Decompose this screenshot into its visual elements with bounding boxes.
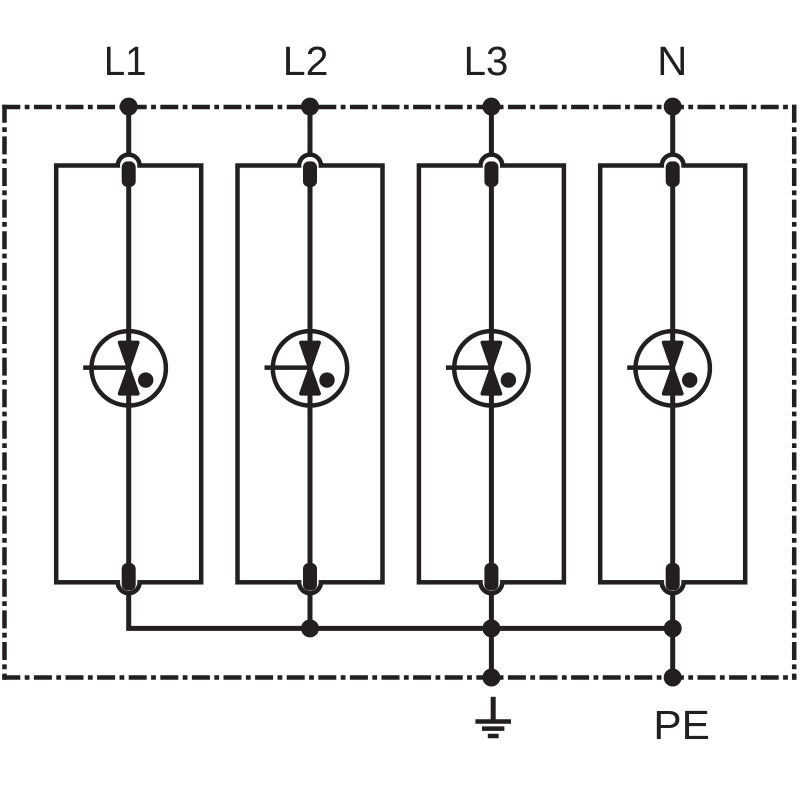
internal wire N bbox=[670, 166, 675, 566]
spark-gap electrode line L3 bbox=[446, 365, 493, 370]
box edge gap at top plug L3 bbox=[483, 163, 500, 168]
internal wire L3 bbox=[489, 166, 494, 566]
SPD module box L2 bbox=[238, 166, 383, 583]
SPD module box N bbox=[600, 166, 745, 583]
spark-gap indicator dot L1 bbox=[138, 372, 153, 387]
spark-gap circle L3 bbox=[454, 331, 528, 405]
svg-text:L2: L2 bbox=[283, 38, 329, 84]
terminal node L1 (dot) bbox=[120, 98, 138, 116]
box edge gap at top plug L1 bbox=[120, 163, 137, 168]
junction node L2/bus bbox=[301, 619, 319, 637]
terminal wire L2 bbox=[308, 104, 313, 154]
svg-text:L1: L1 bbox=[104, 39, 147, 84]
spark-gap indicator dot L2 bbox=[319, 372, 334, 387]
enclosure border right (dash-dot) bbox=[792, 105, 797, 680]
terminal node L2 (dot) bbox=[301, 98, 319, 116]
box edge gap at bottom plug L1 bbox=[120, 580, 137, 585]
spark-gap electrode line L1 bbox=[83, 365, 130, 370]
plug-in arch top L3 bbox=[481, 155, 503, 166]
junction node N/bus bbox=[664, 619, 682, 637]
spark-gap indicator dot L3 bbox=[501, 372, 516, 387]
spark-gap indicator dot N bbox=[682, 372, 697, 387]
box edge gap at top plug N bbox=[664, 163, 681, 168]
ground symbol stem bbox=[491, 697, 496, 722]
wire L1 to PE bus (elbow) bbox=[129, 594, 673, 628]
spark-gap lower triangle L2 bbox=[301, 368, 319, 393]
svg-text:N: N bbox=[657, 38, 687, 83]
plug contact pill top L3 bbox=[484, 161, 498, 187]
spark-gap upper triangle L1 bbox=[120, 343, 138, 369]
enclosure border top (dash-dot) bbox=[2, 105, 796, 110]
junction node L3/bus bbox=[482, 619, 500, 637]
junction node PE/border below L3 bbox=[482, 669, 500, 687]
plug contact pill top L2 bbox=[303, 161, 317, 187]
plug-in arch bottom L2 bbox=[299, 582, 321, 593]
spark-gap lower triangle N bbox=[664, 368, 682, 393]
spark-gap lower triangle L1 bbox=[120, 368, 138, 393]
svg-text:L3: L3 bbox=[464, 38, 509, 84]
spark-gap upper triangle N bbox=[664, 343, 682, 369]
spark-gap lower triangle L3 bbox=[483, 368, 501, 393]
enclosure border bottom (dash-dot) bbox=[2, 675, 796, 680]
terminal node L3 (dot) bbox=[482, 98, 500, 116]
spark-gap electrode line L2 bbox=[265, 365, 312, 370]
internal wire L1 bbox=[126, 166, 131, 566]
plug-in arch top L1 bbox=[118, 155, 140, 166]
SPD module box L1 bbox=[56, 166, 201, 583]
spark-gap circle L1 bbox=[92, 331, 166, 405]
plug-in arch top N bbox=[662, 155, 684, 166]
wire N to bus and PE border bbox=[670, 594, 675, 677]
ground symbol bar 2 bbox=[482, 726, 504, 731]
terminal node N (dot) bbox=[664, 98, 682, 116]
box edge gap at bottom plug N bbox=[664, 580, 681, 585]
ground symbol bar 3 bbox=[488, 734, 499, 739]
plug contact pill top L1 bbox=[122, 161, 136, 187]
wire L3 to bus and PE border bbox=[489, 594, 494, 677]
plug-in arch top L2 bbox=[299, 155, 321, 166]
spark-gap upper triangle L2 bbox=[301, 343, 319, 369]
ground symbol bar 1 bbox=[475, 719, 511, 724]
terminal wire L1 bbox=[126, 104, 131, 154]
internal wire L2 bbox=[308, 166, 313, 566]
box edge gap at bottom plug L2 bbox=[301, 580, 318, 585]
plug contact pill bottom L2 bbox=[303, 563, 317, 591]
plug-in arch bottom N bbox=[662, 582, 684, 593]
plug-in arch bottom L3 bbox=[481, 582, 503, 593]
junction node PE/border below N bbox=[664, 669, 682, 687]
box edge gap at bottom plug L3 bbox=[483, 580, 500, 585]
box edge gap at top plug L2 bbox=[301, 163, 318, 168]
wire L2 to bus bbox=[308, 594, 313, 628]
plug contact pill top N bbox=[666, 161, 680, 187]
spark-gap electrode line N bbox=[627, 365, 674, 370]
svg-text:PE: PE bbox=[653, 702, 709, 748]
plug contact pill bottom L1 bbox=[122, 563, 136, 591]
plug-in arch bottom L1 bbox=[118, 582, 140, 593]
plug contact pill bottom N bbox=[666, 563, 680, 591]
spark-gap circle L2 bbox=[273, 331, 347, 405]
terminal wire L3 bbox=[489, 104, 494, 154]
enclosure border left (dash-dot) bbox=[2, 105, 7, 680]
spark-gap circle N bbox=[636, 331, 710, 405]
SPD module box L3 bbox=[419, 166, 564, 583]
plug contact pill bottom L3 bbox=[484, 563, 498, 591]
terminal wire N bbox=[670, 104, 675, 154]
spark-gap upper triangle L3 bbox=[483, 343, 501, 369]
